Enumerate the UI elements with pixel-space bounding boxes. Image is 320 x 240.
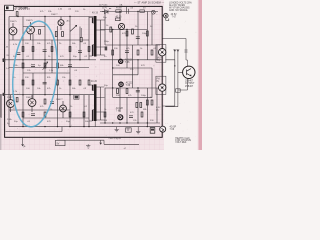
node w6 — [147, 122, 148, 123]
capacitor C13 electrolytic blob — [105, 46, 108, 50]
wire vertical x152 — [151, 14, 153, 97]
left page-edge dark streak — [0, 94, 2, 118]
node d — [22, 59, 23, 60]
svg-text:2SB77: 2SB77 — [51, 14, 58, 16]
node w4 — [119, 122, 120, 123]
transistor Q5 — [28, 95, 36, 112]
resistor R16 — [32, 80, 34, 85]
resistor R37 — [146, 100, 148, 105]
transistor Q8 dark ring — [119, 59, 123, 63]
node w2 — [104, 122, 105, 123]
resistor R40 — [141, 112, 143, 117]
svg-text:100µ: 100µ — [142, 33, 148, 35]
capacitor C9 — [136, 37, 140, 39]
node k — [69, 94, 70, 95]
wire left vertical rail — [8, 17, 10, 127]
node o — [119, 11, 120, 12]
resistor R22 — [44, 99, 46, 104]
wire top rail left — [9, 16, 96, 18]
resistor R4 — [39, 30, 41, 35]
node w — [126, 122, 127, 123]
svg-text:GND. NO SIGNAL: GND. NO SIGNAL — [169, 9, 189, 12]
wire vertical x45 — [44, 17, 46, 95]
graph paper area — [0, 0, 164, 150]
box component bottom middle — [126, 128, 132, 132]
node n — [88, 126, 89, 127]
connector arrows — [174, 50, 188, 53]
resistor R42 — [140, 103, 142, 108]
node x — [147, 126, 148, 127]
svg-text:7·66: 7·66 — [170, 129, 175, 131]
resistor R1 — [16, 12, 18, 16]
wire vertical x120 — [119, 12, 121, 113]
capacitor C6 — [43, 82, 47, 84]
transistor Q1 — [9, 23, 17, 40]
node f — [57, 59, 58, 60]
wire rail y74.8 — [113, 74, 138, 76]
wire rail y88 — [105, 87, 162, 89]
top-right note text block — [169, 2, 192, 13]
resistor R7 — [62, 32, 64, 37]
svg-text:9V: 9V — [57, 144, 60, 146]
wire jack1 to pair — [165, 60, 175, 66]
node b — [44, 16, 45, 17]
resistor R14 — [57, 63, 59, 68]
wire vertical x52 — [51, 40, 53, 73]
resistor R10 — [69, 47, 71, 52]
svg-text:IN: IN — [157, 81, 160, 83]
bottom-right outside text block — [175, 137, 191, 144]
capacitor C20 — [127, 6, 129, 13]
wire vertical x105 — [104, 12, 106, 124]
svg-text:2SB77: 2SB77 — [56, 99, 63, 101]
svg-text:7·66: 7·66 — [125, 62, 130, 64]
jack J1 label — [158, 56, 163, 62]
wire stub below border — [100, 140, 102, 144]
wire bottom rail — [9, 126, 160, 128]
jack J2 housing — [156, 76, 166, 94]
wire rail y97.4 — [113, 96, 152, 98]
wire rail y123 — [100, 122, 160, 124]
wire rail y45 — [105, 44, 160, 46]
svg-text:AC: AC — [67, 20, 70, 23]
node z — [147, 44, 148, 45]
wire rail y118 — [23, 117, 89, 119]
wire drop from border x23 — [22, 137, 24, 145]
transistor Q11 label — [171, 14, 178, 18]
transistor Q10 label — [116, 107, 124, 113]
battery box B1 — [56, 140, 66, 145]
svg-text:AC132: AC132 — [126, 81, 134, 84]
resistor R19 — [79, 80, 81, 85]
wire vertical x57.5 — [57, 26, 59, 127]
wire rail y40 — [9, 39, 89, 41]
svg-text:— ST·AMP 26 SCHEM —: — ST·AMP 26 SCHEM — — [134, 0, 164, 4]
input arrow — [2, 60, 4, 95]
wire vertical x112.7 — [112, 30, 114, 98]
wire mid rail y59.8 — [5, 59, 96, 61]
svg-text:100µ: 100µ — [141, 95, 147, 97]
svg-text:250µ: 250µ — [104, 41, 110, 43]
wire vertical x70 — [69, 17, 71, 127]
wire vertical x147.3 — [146, 12, 148, 127]
wire rail y68 — [113, 67, 152, 69]
wire transistor leads — [162, 60, 187, 107]
svg-text:VOLT REF.: VOLT REF. — [175, 142, 187, 144]
jack J3 label — [170, 127, 177, 131]
svg-text:IN: IN — [158, 60, 161, 62]
switch S1 (diagonal) — [70, 25, 77, 31]
svg-text:.5A: .5A — [119, 4, 123, 7]
node l2 — [44, 126, 45, 127]
svg-text:2SB407: 2SB407 — [185, 86, 194, 88]
wire lower rail y94.7 — [5, 94, 96, 96]
wire right vertical pair — [162, 39, 187, 107]
resistor R6 — [55, 32, 57, 37]
title box top-left — [5, 5, 14, 10]
wire vertical x33 — [32, 34, 34, 98]
resistor R3 — [32, 47, 34, 52]
resistor R2 — [22, 47, 24, 52]
jack J3 (speaker, on border corner) — [160, 126, 166, 132]
wire rail y110 — [9, 109, 70, 111]
schematic border frame — [5, 6, 163, 137]
resistor R30 — [140, 10, 145, 12]
resistor R15 — [22, 80, 24, 85]
wire rail y29.5 — [100, 29, 147, 31]
wire vertical x132.5 — [132, 45, 134, 88]
node s — [112, 67, 113, 68]
resistor R25 — [69, 112, 71, 117]
resistor R41 — [136, 103, 138, 108]
output transistor label — [185, 81, 195, 88]
node h — [79, 59, 80, 60]
node l4 — [83, 126, 84, 127]
resistor R31 — [146, 31, 148, 36]
wire vertical x23 — [22, 17, 24, 127]
node y — [174, 65, 175, 66]
wire vertical x89 — [88, 17, 90, 127]
resistor R20 — [88, 80, 90, 85]
resistor R18 — [69, 80, 71, 85]
transistor Q4 — [7, 95, 15, 112]
resistor R12 — [22, 63, 24, 68]
svg-text:7·67: 7·67 — [172, 16, 177, 18]
wire rail y67.5 — [9, 67, 89, 69]
svg-text:117V: 117V — [102, 8, 107, 10]
node w3 — [112, 122, 113, 123]
node t — [137, 59, 138, 60]
node e — [44, 59, 45, 60]
resistor R17 — [57, 80, 59, 85]
wire sub rail left — [6, 127, 63, 132]
svg-text:AUX: AUX — [158, 56, 163, 59]
input jack left border — [3, 58, 6, 62]
diode D2 small — [176, 89, 181, 92]
jack J1 housing — [156, 45, 166, 63]
wire vertical x127 — [126, 30, 128, 124]
resistor R28 — [126, 31, 128, 36]
transistor Q9 dark ring — [119, 82, 123, 86]
resistor R27 — [110, 27, 112, 32]
svg-text:Com·4·3g·44: Com·4·3g·44 — [109, 138, 122, 140]
ground G1 — [86, 144, 90, 148]
svg-text:AC128: AC128 — [116, 107, 124, 110]
capacitor C12 — [129, 116, 133, 118]
lamp P1 — [151, 10, 155, 14]
transistor Q9 label — [126, 81, 134, 87]
svg-text:AC: AC — [156, 109, 159, 112]
resistor R33 — [137, 50, 139, 55]
svg-text:2SB75: 2SB75 — [26, 97, 33, 99]
node v — [137, 87, 138, 88]
resistor R34 — [151, 50, 153, 55]
resistor R9 — [80, 37, 82, 41]
wire rail y26.5 — [23, 26, 45, 28]
capacitor C4 — [31, 65, 35, 67]
svg-text:2SB75: 2SB75 — [26, 20, 33, 22]
node r — [126, 29, 127, 30]
ground g2 — [136, 127, 140, 134]
left border input marks — [2, 60, 4, 95]
jack J2 label — [157, 78, 161, 83]
wire vertical x80 — [80, 27, 84, 127]
capacitor C11 — [136, 90, 140, 92]
page background — [0, 0, 202, 150]
node u — [112, 87, 113, 88]
resistor R39 — [104, 112, 106, 117]
transistor Q8 label — [125, 59, 133, 65]
node l — [22, 126, 23, 127]
capacitor C8 — [31, 114, 35, 116]
svg-text:+r: +r — [124, 147, 126, 150]
wire battery line — [57, 140, 139, 144]
wire rail y73 — [23, 72, 70, 74]
resistor R13 potentiometer — [44, 63, 46, 68]
svg-text:2SB75: 2SB75 — [10, 21, 17, 23]
resistor R23 — [22, 112, 24, 117]
svg-text:J·160R: J·160R — [14, 6, 28, 11]
svg-text:40·36: 40·36 — [116, 16, 123, 18]
resistor R11 — [88, 47, 90, 52]
resistor R26 — [83, 112, 85, 117]
node w5 — [137, 122, 138, 123]
right pink band — [199, 0, 202, 150]
ground g3 — [126, 128, 130, 130]
svg-text:AC132: AC132 — [125, 59, 133, 62]
node q — [112, 29, 113, 30]
node c — [69, 16, 70, 17]
transistor Q6 — [60, 101, 67, 118]
resistor R35 — [117, 89, 119, 94]
transistor Q10 dark ring — [118, 115, 123, 120]
node g — [69, 59, 70, 60]
wire vertical x100 (transformer secondary) — [99, 20, 101, 120]
resistor R32 — [112, 50, 114, 55]
svg-text:117V AC: 117V AC — [99, 4, 108, 7]
node m — [57, 126, 58, 127]
wire top rail right — [100, 11, 158, 13]
node j — [44, 94, 45, 95]
jack J2 (phono in, on border) — [159, 84, 166, 91]
wire vertical x157 — [156, 45, 158, 123]
transistor Q11 (driver, outside top) — [162, 13, 169, 20]
output transistor Q12 — [183, 66, 195, 78]
svg-text:40·20: 40·20 — [91, 81, 98, 83]
svg-text:7·66: 7·66 — [126, 85, 131, 87]
svg-text:FUSE: FUSE — [116, 8, 122, 10]
node i — [22, 94, 23, 95]
capacitor C3 — [78, 51, 82, 53]
capacitor C7 — [50, 102, 54, 104]
capacitor C2 — [43, 50, 47, 52]
wire vertical x138 — [137, 12, 139, 124]
resistor R29 — [132, 29, 134, 34]
resistor R21 — [16, 98, 18, 102]
capacitor C10 — [125, 51, 129, 53]
resistor R5 — [51, 47, 53, 52]
transistor Q3 — [58, 17, 64, 31]
node a — [17, 16, 18, 17]
transistor Q2 — [27, 22, 35, 40]
capacitor C5 — [68, 65, 72, 67]
ground g1 — [115, 127, 119, 132]
node p — [137, 11, 138, 12]
fuse F1 — [116, 10, 121, 13]
resistor R36 — [126, 89, 128, 94]
wire rail y59.8 right — [100, 59, 162, 61]
svg-text:7·66: 7·66 — [116, 110, 121, 112]
small dark box left of J3 — [150, 128, 155, 134]
node l3 — [69, 126, 70, 127]
capacitor C1 — [16, 53, 20, 55]
resistor R38 — [151, 100, 153, 105]
diode D1 — [102, 8, 111, 14]
jack J1 (aux in, on border) — [159, 49, 166, 56]
component blob electrolytic — [74, 95, 79, 99]
transistor Q7 — [116, 18, 125, 30]
svg-text:40·19: 40·19 — [92, 13, 99, 15]
resistor R24 — [44, 112, 46, 117]
